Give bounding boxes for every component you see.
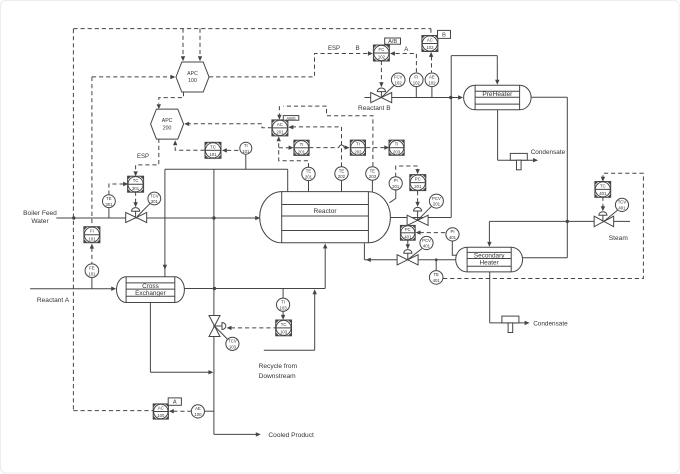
svg-text:401: 401 xyxy=(404,234,412,239)
svg-text:Cooled Product: Cooled Product xyxy=(268,432,314,439)
signal top dashed header xyxy=(73,28,431,30)
instrument AC 100 xyxy=(153,404,168,419)
arrow into Cross Exchanger left xyxy=(111,287,116,291)
instrument TCV 301 xyxy=(137,203,150,216)
svg-text:TI: TI xyxy=(356,142,360,147)
signal FI102 to FC102 (A) xyxy=(394,54,417,73)
svg-text:102: 102 xyxy=(426,45,434,50)
svg-text:AWS: AWS xyxy=(286,116,296,121)
svg-text:401: 401 xyxy=(618,206,626,211)
svg-text:PC: PC xyxy=(405,227,411,232)
svg-text:401: 401 xyxy=(423,244,431,249)
svg-text:Recycle from: Recycle from xyxy=(259,363,298,370)
valve TCV103 vertical xyxy=(209,316,220,337)
svg-text:A: A xyxy=(173,400,177,406)
signal TI101 to TC101 xyxy=(227,149,240,151)
instrument PI 201 xyxy=(389,177,402,190)
svg-text:AC: AC xyxy=(158,406,164,411)
pipe Boiler Feed Water to Reactor inlet xyxy=(56,217,256,219)
arrow cooled product xyxy=(256,432,261,436)
svg-text:202: 202 xyxy=(338,174,346,179)
hexagon APC 100 xyxy=(176,62,209,92)
signal TE201 to AC201 bottom xyxy=(279,141,309,168)
pipe AE 102 stem xyxy=(431,87,433,98)
tag box AWS for AC 201 xyxy=(283,116,299,121)
svg-text:TC: TC xyxy=(281,322,287,327)
svg-text:301: 301 xyxy=(132,186,140,191)
valve FCV102 reactant B xyxy=(371,93,392,103)
signal TI103 to TC103 xyxy=(282,311,284,315)
signal TE203 to AC201 top xyxy=(283,106,373,166)
signal drop into APC100 top-left xyxy=(182,29,184,57)
svg-text:APC: APC xyxy=(187,71,198,77)
arrow into PreHeater left xyxy=(458,95,463,99)
svg-text:101: 101 xyxy=(242,149,250,154)
actuator dome FCV102 xyxy=(377,88,385,92)
pipe PreHeater condensate xyxy=(497,110,499,160)
actuator dome TCV301 xyxy=(132,208,140,212)
pipe reactor outlet to PCV 201 and riser xyxy=(390,217,451,219)
signal TC101 to APC200 bottom-right xyxy=(175,145,204,150)
pipe Cross Exchanger bottom outlet xyxy=(149,303,151,373)
svg-text:301: 301 xyxy=(105,202,113,207)
signal FC102 to valve FCV102 xyxy=(380,61,382,83)
svg-text:401: 401 xyxy=(433,278,441,283)
instrument AC 102 xyxy=(422,36,438,52)
svg-text:200: 200 xyxy=(163,125,172,131)
instrument TC 101 xyxy=(205,142,221,158)
pipe Reactant A feed xyxy=(30,288,112,290)
actuator dome TCV401 xyxy=(599,212,607,216)
vessel Secondary Heater xyxy=(456,247,523,272)
svg-text:PCV: PCV xyxy=(422,238,431,243)
signal PI201 to PC201 xyxy=(396,166,418,177)
svg-text:201: 201 xyxy=(305,175,313,180)
pipe PI 201 stem xyxy=(389,190,395,203)
instrument FI 101 xyxy=(84,227,100,243)
junction dot TE 401 tap xyxy=(435,258,438,261)
svg-text:TI: TI xyxy=(244,143,248,148)
pipe main vertical x=214 (to cooled product) xyxy=(213,169,215,434)
pipe PreHeater right outlet xyxy=(531,96,567,98)
svg-text:201: 201 xyxy=(392,184,400,189)
svg-text:TCV: TCV xyxy=(618,200,627,205)
svg-text:Reactant A: Reactant A xyxy=(37,297,70,304)
pipe riser x=451 up to preheater junction xyxy=(450,56,452,218)
svg-text:FI: FI xyxy=(414,75,418,80)
svg-text:301: 301 xyxy=(151,199,159,204)
instrument TI 203 xyxy=(389,140,404,155)
steam trap preheater xyxy=(510,153,527,160)
tag box B for AC 102 xyxy=(438,30,451,38)
vessel Cross Exchanger xyxy=(116,277,184,303)
svg-text:FC: FC xyxy=(379,47,385,52)
pipe reactor TE 202 stem xyxy=(341,180,343,191)
svg-text:FCV: FCV xyxy=(394,75,403,80)
instrument PC 201 xyxy=(410,175,426,191)
tag box A/B for FC 102 xyxy=(385,38,401,44)
pipe into Secondary Heater right xyxy=(523,257,568,259)
svg-text:PI: PI xyxy=(394,178,398,183)
svg-text:TC: TC xyxy=(133,178,139,183)
svg-text:PCV: PCV xyxy=(432,196,441,201)
instrument TI 201 xyxy=(294,140,309,155)
svg-text:TI: TI xyxy=(281,300,285,305)
svg-text:201: 201 xyxy=(276,130,284,135)
svg-text:100: 100 xyxy=(157,413,165,418)
actuator dome PCV201 xyxy=(414,207,422,211)
instrument FE 101 xyxy=(85,264,99,278)
signal AC201 to APC200 right vertex xyxy=(188,124,272,128)
pipe reactor TE 201 stem xyxy=(308,181,310,192)
pipe riser into reactor bottom xyxy=(324,246,326,289)
pipe TI 103 tap xyxy=(282,289,284,299)
instrument TE 301 xyxy=(103,195,116,208)
pipe preheater top feed xyxy=(451,55,497,57)
signal TC301 to valve TCV301 xyxy=(135,192,137,203)
svg-text:Cross: Cross xyxy=(142,283,159,290)
svg-text:102: 102 xyxy=(428,80,436,85)
arrow into vertical pipe at junction xyxy=(208,370,213,374)
instrument TE 201 xyxy=(302,167,315,180)
svg-text:202: 202 xyxy=(354,149,362,154)
svg-text:A/B: A/B xyxy=(388,39,397,45)
instrument AC 201 xyxy=(272,120,288,136)
svg-text:TCV: TCV xyxy=(150,193,159,198)
pipe header drop to Cross Exchanger top xyxy=(164,169,166,276)
signal TI201 to TI202 with line hop xyxy=(309,147,339,149)
junction dot on BFW line at x=73.8 xyxy=(72,216,75,219)
svg-text:FI: FI xyxy=(90,229,94,234)
pipe reactor TE 203 stem xyxy=(371,180,373,191)
junction dot steam line xyxy=(566,220,569,223)
pipe Secondary Heater condensate xyxy=(489,272,491,323)
svg-text:401: 401 xyxy=(449,235,457,240)
svg-text:Exchanger: Exchanger xyxy=(135,290,166,297)
arrow up into reactor bottom xyxy=(323,243,327,248)
valve TCV401 steam xyxy=(594,216,614,227)
pipe FI 102 stem xyxy=(415,87,417,98)
svg-text:100: 100 xyxy=(194,412,202,417)
instrument TI 103 xyxy=(277,298,290,311)
instrument FC 102 xyxy=(373,45,389,61)
valve PCV401 secondary heater inlet xyxy=(397,255,418,265)
svg-text:Boiler Feed: Boiler Feed xyxy=(23,210,57,217)
junction dot at x=214.9 on exchanger outlet xyxy=(213,287,216,290)
instrument TCV 103 xyxy=(215,327,228,340)
junction dot on BFW line at x=214 xyxy=(212,216,215,219)
arrow at corner pointing left xyxy=(366,258,371,262)
pipe AE 100 stem xyxy=(205,410,214,412)
svg-text:AC: AC xyxy=(427,38,433,43)
svg-text:103: 103 xyxy=(280,305,288,310)
svg-text:203: 203 xyxy=(393,149,401,154)
svg-text:FE: FE xyxy=(89,266,95,271)
pipe steam header xyxy=(489,220,630,222)
svg-text:100: 100 xyxy=(188,78,197,84)
svg-text:Downstream: Downstream xyxy=(259,373,297,380)
arrow into reactor left nozzle xyxy=(255,216,260,220)
instrument PCV 401 xyxy=(408,249,422,260)
svg-text:201: 201 xyxy=(433,202,441,207)
instrument TC 103 xyxy=(276,320,292,336)
svg-text:201: 201 xyxy=(298,149,306,154)
pipe TE 401 stem xyxy=(435,260,437,271)
pipe TI 101 tap xyxy=(245,154,247,169)
valve TCV301 boiler feed water xyxy=(126,212,147,222)
svg-text:TE: TE xyxy=(433,272,439,277)
svg-text:Reactor: Reactor xyxy=(314,208,338,215)
instrument FI 102 xyxy=(410,73,424,87)
signal AC100 to APC100 left riser xyxy=(72,29,74,411)
svg-text:TE: TE xyxy=(339,168,345,173)
svg-text:B: B xyxy=(356,46,360,52)
svg-text:TE: TE xyxy=(370,168,376,173)
pipe TE 301 tap xyxy=(108,208,110,218)
svg-text:102: 102 xyxy=(413,80,421,85)
pipe header drop into reactor top xyxy=(287,169,289,191)
svg-text:APC: APC xyxy=(162,118,173,124)
pipe Secondary Heater inlet from reactor bottom xyxy=(363,243,365,260)
arrow recycle joins pipe xyxy=(313,289,317,294)
signal TI202 to TI203 xyxy=(366,147,385,149)
svg-text:102: 102 xyxy=(378,55,386,60)
signal PC401 to valve PCV401 xyxy=(407,240,409,245)
arrow on drop to Cross Exchanger top xyxy=(163,265,167,270)
signal TC103 to valve TCV103 xyxy=(231,327,276,329)
instrument TI 202 xyxy=(350,140,365,155)
svg-text:401: 401 xyxy=(599,191,607,196)
svg-text:TE: TE xyxy=(306,169,312,174)
instrument PI 401 xyxy=(446,228,459,241)
svg-text:B: B xyxy=(442,33,446,39)
svg-text:Condensate: Condensate xyxy=(531,149,566,156)
pipe FE 101 tap xyxy=(91,278,93,289)
pipe Reactant B xyxy=(365,97,460,99)
instrument TC 301 xyxy=(128,176,144,192)
instrument PCV 201 xyxy=(418,206,432,220)
instrument TE 401 xyxy=(429,271,443,285)
svg-text:PI: PI xyxy=(450,229,454,234)
svg-text:AE: AE xyxy=(195,406,201,411)
vessel Reactor xyxy=(260,192,391,243)
svg-text:Water: Water xyxy=(31,218,49,225)
svg-text:AC: AC xyxy=(277,122,283,127)
svg-text:203: 203 xyxy=(369,174,377,179)
vessel PreHeater xyxy=(464,85,531,110)
svg-text:Heater: Heater xyxy=(480,260,500,267)
signal AE102 to AC102 xyxy=(431,56,433,72)
pipe recycle from downstream xyxy=(264,349,315,351)
svg-text:102: 102 xyxy=(395,80,403,85)
pipe drop into Secondary Heater top xyxy=(488,221,490,243)
signal TE301 to TC301 xyxy=(109,184,124,195)
signal TC401 to valve TCV401 xyxy=(602,197,604,207)
svg-text:TCV: TCV xyxy=(228,339,237,344)
signal PC201 to valve PCV201 xyxy=(417,191,419,203)
svg-text:TC: TC xyxy=(210,144,216,149)
tag box A for AC 100 xyxy=(168,398,181,405)
svg-text:PreHeater: PreHeater xyxy=(482,91,513,98)
svg-text:TI: TI xyxy=(300,142,304,147)
signal APC100 to FC102 (ESP B) xyxy=(209,54,369,77)
svg-text:101: 101 xyxy=(209,152,217,157)
steam trap secondary heater xyxy=(502,316,519,323)
pipe cooled product run xyxy=(213,433,215,435)
svg-text:Condensate: Condensate xyxy=(533,320,568,327)
hexagon APC 200 xyxy=(151,109,184,139)
valve PCV201 reactor outlet xyxy=(407,215,428,225)
svg-text:Reactant B: Reactant B xyxy=(358,105,391,112)
signal AC102 riser to header xyxy=(430,29,432,36)
signal drop into APC100 top-right xyxy=(199,29,201,57)
signal TE202 to AC201 right xyxy=(292,127,341,167)
svg-text:Steam: Steam xyxy=(609,235,629,242)
svg-text:PC: PC xyxy=(415,177,421,182)
pipe PI 401 elbow xyxy=(452,241,457,255)
instrument TC 401 xyxy=(595,182,611,198)
svg-text:TC: TC xyxy=(600,183,606,188)
signal branch to TI201 xyxy=(279,147,290,149)
signal TE401 to TC401 loop xyxy=(443,173,643,278)
svg-text:TE: TE xyxy=(106,196,112,201)
signal APC100 to APC200 xyxy=(159,92,184,104)
arrow preheater condensate xyxy=(533,158,538,162)
svg-text:AE: AE xyxy=(429,75,435,80)
pipe Cross Exchanger outlet to reactor bottom xyxy=(184,288,325,290)
instrument AE 102 xyxy=(425,73,439,87)
svg-text:101: 101 xyxy=(88,236,96,241)
instrument TE 203 xyxy=(366,167,379,180)
instrument TE 202 xyxy=(335,167,348,180)
actuator dome TCV103 side mounted xyxy=(215,325,223,327)
svg-text:103: 103 xyxy=(280,330,288,335)
instrument PC 401 xyxy=(400,225,415,240)
signal FE101 to FI101 xyxy=(91,248,93,264)
svg-text:ESP: ESP xyxy=(328,46,340,52)
svg-text:TI: TI xyxy=(395,142,399,147)
signal APC200 to TC301 xyxy=(136,139,159,172)
instrument AE 100 xyxy=(191,405,204,418)
signal AE100 to AC100 xyxy=(173,410,191,412)
actuator dome PCV401 xyxy=(404,250,412,254)
arrow into Secondary Heater top xyxy=(487,242,491,247)
svg-text:103: 103 xyxy=(229,344,237,349)
junction dot reactant B / riser xyxy=(449,96,452,99)
svg-text:ESP: ESP xyxy=(137,154,149,160)
instrument TI 101 xyxy=(240,142,252,154)
instrument FCV 102 xyxy=(381,85,394,97)
signal PI401 to PC401 xyxy=(420,232,446,234)
pipe water header above reactor xyxy=(165,168,288,170)
svg-text:A: A xyxy=(404,47,408,53)
arrow into PreHeater top xyxy=(495,80,499,85)
svg-text:201: 201 xyxy=(414,184,422,189)
arrow secondary condensate xyxy=(525,321,530,325)
signal FC101 to APC100 left vertex xyxy=(91,77,93,227)
svg-text:101: 101 xyxy=(88,271,96,276)
instrument TCV 401 xyxy=(604,210,618,221)
